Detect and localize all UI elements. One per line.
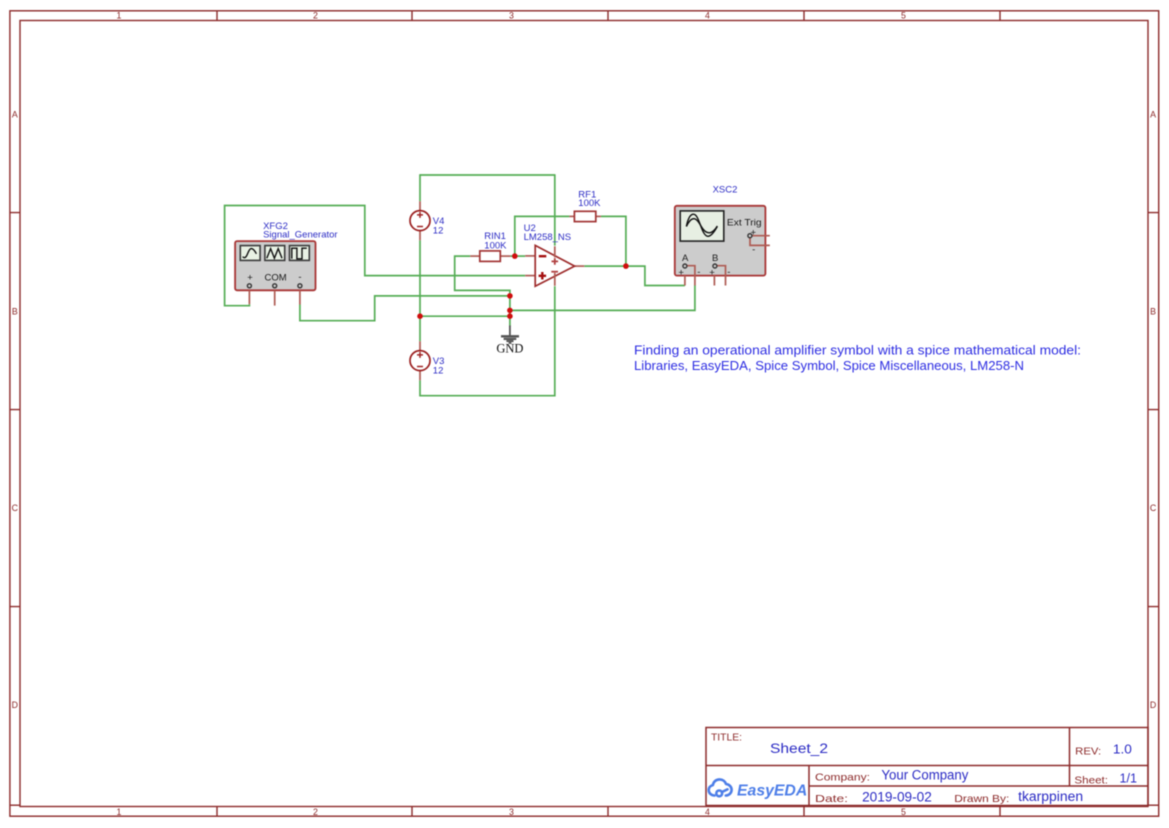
svg-text:LM258_NS: LM258_NS xyxy=(524,232,572,243)
svg-text:100K: 100K xyxy=(578,198,601,209)
svg-text:+: + xyxy=(247,273,253,284)
svg-text:5: 5 xyxy=(901,11,906,21)
svg-text:B: B xyxy=(712,253,718,264)
svg-text:1/1: 1/1 xyxy=(1120,771,1138,786)
svg-text:2: 2 xyxy=(313,807,318,817)
svg-text:Signal_Generator: Signal_Generator xyxy=(263,229,337,240)
svg-text:-: - xyxy=(298,272,301,283)
svg-text:C: C xyxy=(12,503,19,513)
svg-text:5: 5 xyxy=(901,807,906,817)
svg-text:Sheet_2: Sheet_2 xyxy=(770,741,828,756)
svg-text:4: 4 xyxy=(705,807,710,817)
svg-text:XSC2: XSC2 xyxy=(713,185,738,196)
svg-text:TITLE:: TITLE: xyxy=(711,733,742,744)
svg-text:Libraries, EasyEDA, Spice Symb: Libraries, EasyEDA, Spice Symbol, Spice … xyxy=(634,358,1024,373)
svg-text:Your Company: Your Company xyxy=(881,768,968,783)
svg-text:Ext Trig: Ext Trig xyxy=(727,217,762,228)
svg-text:D: D xyxy=(12,700,18,710)
svg-text:tkarppinen: tkarppinen xyxy=(1018,789,1083,804)
svg-text:1: 1 xyxy=(117,807,122,817)
svg-text:Company:: Company: xyxy=(815,772,870,784)
svg-text:Sheet:: Sheet: xyxy=(1074,774,1108,786)
svg-text:GND: GND xyxy=(496,341,523,355)
svg-text:3: 3 xyxy=(509,807,514,817)
svg-text:12: 12 xyxy=(433,225,444,236)
svg-text:C: C xyxy=(1150,503,1157,513)
svg-text:+: + xyxy=(678,268,684,279)
svg-text:-: - xyxy=(727,267,730,278)
svg-text:B: B xyxy=(1150,307,1156,317)
svg-text:100K: 100K xyxy=(484,240,507,251)
svg-text:12: 12 xyxy=(433,365,444,376)
svg-text:-: - xyxy=(697,267,700,278)
svg-text:1: 1 xyxy=(117,11,122,21)
svg-text:A: A xyxy=(12,109,18,119)
svg-text:4: 4 xyxy=(705,11,710,21)
svg-text:Date:: Date: xyxy=(815,793,848,805)
svg-text:REV:: REV: xyxy=(1075,745,1101,757)
svg-text:1.0: 1.0 xyxy=(1113,742,1132,757)
svg-text:2: 2 xyxy=(313,11,318,21)
svg-text:3: 3 xyxy=(509,11,514,21)
svg-text:EasyEDA: EasyEDA xyxy=(737,783,807,800)
svg-text:D: D xyxy=(1150,700,1156,710)
svg-text:2019-09-02: 2019-09-02 xyxy=(862,790,932,805)
svg-text:B: B xyxy=(12,307,18,317)
svg-text:COM: COM xyxy=(265,273,287,284)
svg-text:A: A xyxy=(682,253,689,264)
svg-text:Drawn By:: Drawn By: xyxy=(954,793,1009,805)
svg-text:A: A xyxy=(1150,109,1156,119)
svg-text:Finding an operational amplifi: Finding an operational amplifier symbol … xyxy=(634,342,1081,357)
